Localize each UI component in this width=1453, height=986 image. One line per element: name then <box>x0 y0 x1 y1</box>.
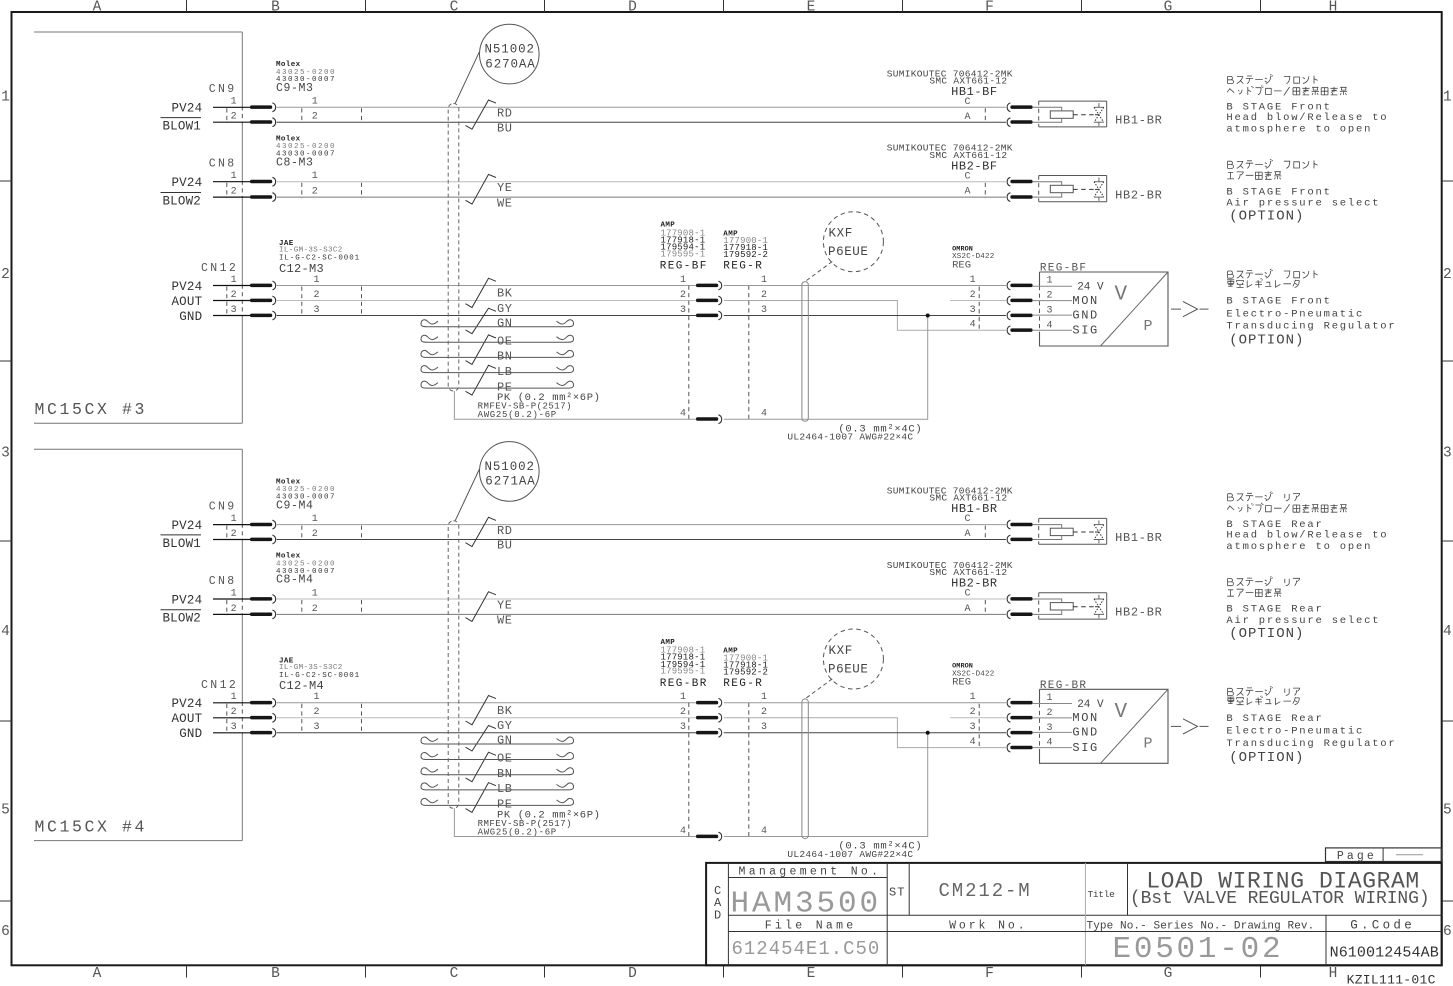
svg-text:2: 2 <box>312 529 318 540</box>
svg-text:REG-BF: REG-BF <box>1040 263 1087 275</box>
svg-text:YE: YE <box>497 181 513 195</box>
svg-text:GND: GND <box>1072 726 1098 740</box>
svg-text:A: A <box>93 966 102 982</box>
svg-text:RD: RD <box>497 524 513 538</box>
svg-text:C12-M4: C12-M4 <box>279 679 324 693</box>
svg-text:D: D <box>714 909 721 923</box>
svg-text:(OPTION): (OPTION) <box>1229 750 1304 766</box>
regulator pin wire and name MON <box>1032 711 1099 725</box>
unused coiled wire BN <box>421 350 574 357</box>
svg-text:179595-1: 179595-1 <box>661 667 706 677</box>
cable sheath UL2464 4C capsule <box>802 282 808 422</box>
svg-text:P: P <box>1144 318 1153 335</box>
svg-text:5: 5 <box>1443 803 1452 819</box>
svg-text:F: F <box>985 966 994 982</box>
valve HB2-BR coil <box>1050 185 1073 192</box>
svg-text:C: C <box>450 966 459 982</box>
svg-text:2: 2 <box>1 267 10 283</box>
dashed leader from KXF circle to cable <box>807 678 834 698</box>
connector C12-M4 pin2 contact <box>250 713 276 722</box>
wire GN C12 pin3 to REG-BF pin3 <box>277 315 696 317</box>
svg-text:3: 3 <box>970 305 976 316</box>
svg-text:H: H <box>1329 966 1338 982</box>
wire pin1 REG-R to OMRON REG pin1 <box>724 285 1006 287</box>
svg-text:GN: GN <box>497 316 513 330</box>
SUMIKOUTEC part labels HB1-BF <box>887 68 1013 99</box>
valve HB1-BR actuation dashed link <box>1073 531 1094 533</box>
svg-text:Electro-Pneumatic: Electro-Pneumatic <box>1226 308 1364 320</box>
svg-text:CN12: CN12 <box>201 679 238 692</box>
svg-text:Transducing Regulator: Transducing Regulator <box>1226 321 1396 333</box>
svg-text:Molex: Molex <box>276 61 301 69</box>
dashed housing C8 plug right <box>361 600 363 615</box>
solenoid valve HB2-BR box <box>1039 593 1107 619</box>
connector contact HB2-BR pin A <box>1007 193 1032 202</box>
svg-text:D: D <box>628 966 637 982</box>
svg-text:GND: GND <box>179 310 202 324</box>
svg-text:P6EUE: P6EUE <box>828 662 869 676</box>
page box <box>1326 848 1442 863</box>
JAE part labels for C12-M3 <box>279 240 360 276</box>
AMP part labels REG-BF side <box>660 639 708 690</box>
svg-text:UL2464-1007 AWG#22×4C: UL2464-1007 AWG#22×4C <box>787 432 913 443</box>
svg-text:1: 1 <box>231 171 237 182</box>
svg-text:1: 1 <box>231 275 237 286</box>
svg-text:AOUT: AOUT <box>171 295 202 309</box>
svg-text:CN8: CN8 <box>209 575 237 588</box>
svg-text:1: 1 <box>761 275 767 286</box>
connector C12-M4 pin1 contact <box>250 698 276 707</box>
svg-text:(OPTION): (OPTION) <box>1229 333 1304 349</box>
svg-text:A: A <box>964 604 970 615</box>
svg-text:RD: RD <box>497 107 513 121</box>
svg-text:A: A <box>964 529 970 540</box>
description HB1 japanese line1 <box>1228 74 1318 83</box>
description HB2 english <box>1226 604 1380 642</box>
svg-text:2: 2 <box>231 604 237 615</box>
svg-text:Work No.: Work No. <box>949 920 1027 933</box>
cable label circle N51002 6270AA <box>480 24 540 84</box>
svg-text:6: 6 <box>1443 924 1452 940</box>
pair mark GN/OE <box>466 726 497 752</box>
svg-text:6271AA: 6271AA <box>485 475 535 489</box>
svg-text:YE: YE <box>497 598 513 612</box>
pair mark YE/WE <box>466 174 497 204</box>
dashed housing C12 plug left <box>301 287 303 317</box>
AMP part labels REG-R side <box>723 230 768 272</box>
column tick marks bottom border <box>187 965 1261 977</box>
dashed housing OMRON REG <box>978 704 980 748</box>
pair mark PE/PK <box>466 783 497 813</box>
svg-text:3: 3 <box>680 722 686 733</box>
svg-text:Head blow/Release to: Head blow/Release to <box>1226 529 1388 541</box>
wire CN8 pin2 stub <box>213 196 250 198</box>
solenoid valve HB2-BR box <box>1039 176 1107 202</box>
connector REG contact pin4 <box>696 832 722 841</box>
dashed housing AMP left <box>688 286 690 420</box>
valve HB2-BR coil wiring <box>1032 599 1061 614</box>
svg-text:6: 6 <box>1 924 10 940</box>
svg-text:2: 2 <box>970 290 976 301</box>
dashed housing C12 plug left <box>301 704 303 734</box>
svg-text:1: 1 <box>231 588 237 599</box>
svg-text:HB1-BR: HB1-BR <box>951 502 998 516</box>
wire pin3 REG-R to OMRON REG pin3 GND <box>724 315 1006 317</box>
cable label dashed circle KXF P6EUE <box>823 212 883 272</box>
svg-text:179592-2: 179592-2 <box>723 250 768 260</box>
svg-text:PV24: PV24 <box>171 280 202 294</box>
dashed housing valve HB2-BR connector <box>984 183 986 198</box>
grid column letters bottom <box>93 966 1338 982</box>
connector contact HB1-BR pin A <box>1007 535 1032 544</box>
svg-text:WE: WE <box>497 196 513 210</box>
wire CN8 pin2 stub <box>213 613 250 615</box>
svg-text:1: 1 <box>970 692 976 703</box>
CAD column letters <box>714 884 722 923</box>
AMP part labels REG-BF side <box>660 222 708 273</box>
svg-text:REG: REG <box>952 677 971 689</box>
dashed housing OMRON REG <box>978 287 980 331</box>
svg-text:B STAGE Rear: B STAGE Rear <box>1226 604 1323 616</box>
svg-text:N51002: N51002 <box>485 43 535 57</box>
svg-text:REG-BF: REG-BF <box>660 261 708 273</box>
svg-text:3: 3 <box>970 722 976 733</box>
svg-text:HAM3500: HAM3500 <box>731 887 882 922</box>
svg-text:C: C <box>964 97 970 108</box>
svg-text:Title: Title <box>1088 889 1116 900</box>
svg-text:1: 1 <box>312 588 318 599</box>
description regulator japanese line2 <box>1227 279 1299 288</box>
dashed housing valve HB2-BR connector <box>984 600 986 615</box>
svg-text:1: 1 <box>231 514 237 525</box>
C12 pin numbers right <box>314 692 320 733</box>
AMP pin numbers left <box>680 692 686 837</box>
dashed housing C12 plug right <box>361 704 363 734</box>
dashed connector housing CN12 on box edge <box>241 702 243 734</box>
dashed leader from KXF circle to cable <box>807 261 834 281</box>
svg-text:Page: Page <box>1337 850 1377 863</box>
svg-text:2: 2 <box>1047 291 1053 302</box>
svg-text:SIG: SIG <box>1072 741 1098 755</box>
connector C9-M3 pin2 contact <box>250 118 276 127</box>
svg-text:BLOW2: BLOW2 <box>162 194 201 208</box>
svg-text:4: 4 <box>1443 624 1452 640</box>
regulator REG-BF box <box>1040 272 1169 346</box>
description HB2 english <box>1226 186 1380 224</box>
svg-text:PV24: PV24 <box>171 697 202 711</box>
svg-text:Molex: Molex <box>276 135 301 143</box>
description HB1 english <box>1226 519 1388 553</box>
svg-text:A: A <box>93 0 102 15</box>
svg-text:Type No.- Series No.- Drawing: Type No.- Series No.- Drawing Rev. <box>1087 921 1315 933</box>
svg-text:BK: BK <box>497 287 513 301</box>
svg-text:3: 3 <box>314 305 320 316</box>
dashed pin-link CN9 inside box <box>226 526 228 541</box>
svg-text:C8-M4: C8-M4 <box>276 574 314 587</box>
dashed housing C9 plug right <box>361 526 363 541</box>
wire CN9 pin1 stub <box>213 524 250 526</box>
MC15CX #3 controller box <box>34 32 242 423</box>
svg-text:LB: LB <box>497 365 513 379</box>
wire BU to HB1 pin A <box>277 121 1006 123</box>
svg-text:2: 2 <box>314 707 320 718</box>
pair mark PE/PK <box>466 365 497 395</box>
svg-text:HB1-BF: HB1-BF <box>951 85 998 99</box>
svg-text:1: 1 <box>312 171 318 182</box>
connector REG contact pin1 <box>696 281 722 290</box>
dashed pin-link CN12 inside box <box>226 704 228 734</box>
connector REG contact pin3 <box>696 728 722 737</box>
valve HB2-BR coil <box>1050 603 1073 610</box>
svg-text:HB1-BR: HB1-BR <box>1115 531 1162 545</box>
valve HB1-BR coil wiring <box>1032 525 1061 540</box>
dashed housing C9 plug left <box>301 526 303 541</box>
connector C12-M3 pin2 contact <box>250 296 276 305</box>
svg-text:2: 2 <box>231 112 237 123</box>
column tick marks top border <box>187 0 1261 12</box>
cable spec text 0.3mm2 4C <box>787 841 922 860</box>
svg-text:C9-M3: C9-M3 <box>276 82 314 95</box>
unused coiled wire OE <box>421 753 574 760</box>
svg-text:4: 4 <box>1047 738 1053 749</box>
connector C12-M3 pin3 contact <box>250 311 276 320</box>
regulator pin wire and name GND <box>1032 308 1099 322</box>
wire RD to HB1 pin C <box>277 524 1006 526</box>
solenoid valve HB1-BR box <box>1039 518 1107 544</box>
svg-text:24 V: 24 V <box>1077 699 1104 711</box>
svg-text:179592-2: 179592-2 <box>723 668 768 678</box>
connector C8-M4 pin2 contact <box>250 610 276 619</box>
CN9 pin2 label BLOW1 with overline <box>161 535 202 551</box>
svg-text:HB2-BR: HB2-BR <box>951 577 998 591</box>
CN12 pin numbers left <box>231 275 237 316</box>
cable sheath N51002 6271AA dashed capsule <box>448 521 459 809</box>
dashed housing C9 plug left <box>301 108 303 123</box>
svg-text:2: 2 <box>970 707 976 718</box>
svg-text:3: 3 <box>1443 446 1452 462</box>
svg-text:Electro-Pneumatic: Electro-Pneumatic <box>1226 726 1364 738</box>
grid row numbers right <box>1443 90 1452 941</box>
connector contact HB1-BR pin C <box>1007 520 1032 529</box>
connector C9-M4 pin2 contact <box>250 535 276 544</box>
svg-text:OE: OE <box>497 334 513 348</box>
svg-text:1: 1 <box>1047 693 1053 704</box>
svg-text:CN9: CN9 <box>209 500 237 513</box>
valve HB1-BR coil <box>1050 111 1073 118</box>
wire RD to HB1 pin C <box>277 106 1006 108</box>
svg-text:CN12: CN12 <box>201 262 238 275</box>
OMRON REG pin numbers <box>970 275 976 331</box>
Molex part labels for C9-M3 <box>276 61 336 95</box>
Molex part labels for C8-M4 <box>276 553 336 587</box>
regulator pin wire and name 24 V <box>1032 699 1104 711</box>
connector contact HB2-BR pin C <box>1007 177 1032 186</box>
svg-text:3: 3 <box>761 722 767 733</box>
svg-text:UL2464-1007 AWG#22×4C: UL2464-1007 AWG#22×4C <box>787 849 913 860</box>
svg-text:KXF: KXF <box>829 227 853 241</box>
valve HB1-BR spring/valve symbol <box>1094 103 1104 126</box>
svg-text:1: 1 <box>1 90 10 106</box>
dashed housing C8 plug left <box>301 600 303 615</box>
svg-text:3: 3 <box>231 722 237 733</box>
dashed pin-link CN9 inside box <box>226 108 228 123</box>
connector contact HB2-BR pin A <box>1007 610 1032 619</box>
dashed housing C9 plug right <box>361 108 363 123</box>
wire CN12 pin3 stub <box>213 732 250 734</box>
wire YE to HB2 pin C <box>277 598 1006 600</box>
svg-text:CM212-M: CM212-M <box>939 880 1032 902</box>
svg-text:G: G <box>1164 0 1173 15</box>
svg-text:(OPTION): (OPTION) <box>1229 209 1304 225</box>
description HB1 english <box>1226 102 1388 136</box>
valve HB1-BR coil wiring <box>1032 107 1061 122</box>
svg-text:Head blow/Release to: Head blow/Release to <box>1226 112 1388 124</box>
wire GN C12 pin3 to REG-BF pin3 <box>277 732 696 734</box>
svg-text:2: 2 <box>761 707 767 718</box>
connector contact HB1-BR pin C <box>1007 103 1032 112</box>
svg-text:H: H <box>1329 0 1338 15</box>
cable sheath N51002 6270AA dashed capsule <box>448 104 459 392</box>
connector OMRON REG contact pin4 <box>1007 743 1032 752</box>
svg-text:MON: MON <box>1072 711 1098 725</box>
svg-text:1: 1 <box>970 275 976 286</box>
wire WE to HB2 pin A <box>277 196 1006 198</box>
svg-text:REG: REG <box>952 259 971 271</box>
svg-text:Management No.: Management No. <box>739 865 882 878</box>
svg-text:1: 1 <box>1443 90 1452 106</box>
svg-text:1: 1 <box>680 692 686 703</box>
svg-text:HB2-BF: HB2-BF <box>951 159 998 173</box>
svg-text:A: A <box>964 187 970 198</box>
connector REG contact pin3 <box>696 311 722 320</box>
wire CN9 pin1 stub <box>213 106 250 108</box>
svg-text:BK: BK <box>497 704 513 718</box>
CN9 pin2 label BLOW1 with overline <box>161 118 202 134</box>
svg-text:B: B <box>271 0 280 15</box>
dashed housing AMP left <box>688 703 690 837</box>
svg-text:AOUT: AOUT <box>171 712 202 726</box>
pair mark RD/BU <box>466 517 497 546</box>
svg-text:OMRON: OMRON <box>952 245 973 253</box>
unused coiled wire GN <box>421 320 574 327</box>
svg-text:HB1-BR: HB1-BR <box>1115 114 1162 128</box>
valve HB2-BR spring/valve symbol <box>1094 595 1104 618</box>
OMRON REG pin numbers <box>970 692 976 748</box>
svg-text:N610012454AB: N610012454AB <box>1330 945 1439 962</box>
Molex part labels for C9-M4 <box>276 478 336 512</box>
SUMIKOUTEC part labels HB2-BF <box>887 143 1013 174</box>
connector C12-M4 pin3 contact <box>250 728 276 737</box>
unused coiled wire GN <box>421 737 574 744</box>
wire pin2 REG-R stepping down to REG pin4 <box>724 301 1006 331</box>
wire CN8 pin1 stub <box>213 181 250 183</box>
svg-text:3: 3 <box>231 305 237 316</box>
MC15CX #4 controller box <box>34 449 242 840</box>
valve HB2-BR spring/valve symbol <box>1094 178 1104 201</box>
svg-text:2: 2 <box>312 112 318 123</box>
pneumatic output dashed arrow <box>1171 302 1209 317</box>
svg-text:CN9: CN9 <box>209 83 237 96</box>
wire GY C12 pin2 to REG-BF pin2 <box>277 717 696 719</box>
stub wire OMRON REG pin2 <box>950 300 1006 302</box>
connector contact HB2-BR pin C <box>1007 595 1032 604</box>
JAE part labels for C12-M4 <box>279 657 360 693</box>
svg-text:4: 4 <box>1 624 10 640</box>
svg-text:1: 1 <box>680 275 686 286</box>
row tick marks right border <box>1442 181 1453 901</box>
svg-text:GND: GND <box>179 727 202 741</box>
svg-text:MON: MON <box>1072 294 1098 308</box>
valve HB2-BR coil wiring <box>1032 182 1061 197</box>
svg-text:4: 4 <box>970 737 976 748</box>
unused coiled wire LB <box>421 783 574 790</box>
svg-text:BLOW1: BLOW1 <box>162 537 201 551</box>
svg-text:1: 1 <box>312 514 318 525</box>
OMRON part labels REG <box>952 245 994 271</box>
svg-text:C: C <box>964 514 970 525</box>
svg-text:A: A <box>964 112 970 123</box>
regulator pin wire and name 24 V <box>1032 282 1104 294</box>
description regulator english <box>1226 713 1396 766</box>
svg-text:2: 2 <box>761 290 767 301</box>
regulator diagonal divider <box>1101 689 1169 763</box>
svg-text:2: 2 <box>1443 267 1452 283</box>
svg-text:E: E <box>807 966 816 982</box>
connector REG contact pin4 <box>696 415 722 424</box>
cable label dashed circle KXF P6EUE <box>823 629 883 689</box>
description HB2 japanese line2 <box>1227 589 1281 597</box>
svg-text:3: 3 <box>761 305 767 316</box>
dashed housing AMP right <box>748 286 750 420</box>
dashed pin-link CN8 inside box <box>226 600 228 615</box>
regulator pin wire and name MON <box>1032 294 1099 308</box>
svg-text:BN: BN <box>497 350 513 364</box>
svg-text:24 V: 24 V <box>1077 282 1104 294</box>
valve HB1-BR coil <box>1050 528 1073 535</box>
connector C8-M4 pin1 contact <box>250 595 276 604</box>
svg-text:KZIL111-01C: KZIL111-01C <box>1347 973 1436 986</box>
CN8 pin2 label BLOW2 with overline <box>161 193 202 209</box>
svg-text:2: 2 <box>231 707 237 718</box>
title block internal dividers <box>728 863 1441 965</box>
description regulator japanese line1 <box>1228 686 1300 695</box>
OMRON part labels REG <box>952 663 994 689</box>
svg-text:IL-GM-3S-S3C2: IL-GM-3S-S3C2 <box>279 664 343 672</box>
svg-text:HB2-BR: HB2-BR <box>1115 188 1162 202</box>
svg-text:C: C <box>964 589 970 600</box>
grid column letters top <box>93 0 1338 15</box>
svg-text:V: V <box>1115 284 1128 307</box>
connector C12-M3 pin1 contact <box>250 281 276 290</box>
svg-text:atmosphere to open: atmosphere to open <box>1226 124 1372 136</box>
junction dot GND <box>926 314 930 318</box>
svg-text:E0501-02: E0501-02 <box>1113 932 1284 967</box>
unused coiled wire OE <box>421 335 574 342</box>
svg-text:P: P <box>1144 735 1153 752</box>
SUMIKOUTEC part labels HB2-BR <box>887 560 1013 591</box>
dashed pin-link CN8 inside box <box>226 183 228 198</box>
svg-text:PV24: PV24 <box>171 176 202 190</box>
svg-text:5: 5 <box>1 803 10 819</box>
svg-text:HB2-BR: HB2-BR <box>1115 606 1162 620</box>
regulator internal pin numbers <box>1047 276 1053 332</box>
svg-text:OMRON: OMRON <box>952 663 973 671</box>
dashed housing C8 plug right <box>361 183 363 198</box>
svg-text:PV24: PV24 <box>171 519 202 533</box>
regulator internal pin numbers <box>1047 693 1053 749</box>
svg-text:B STAGE Front: B STAGE Front <box>1226 296 1331 308</box>
svg-text:B STAGE Rear: B STAGE Rear <box>1226 713 1323 725</box>
